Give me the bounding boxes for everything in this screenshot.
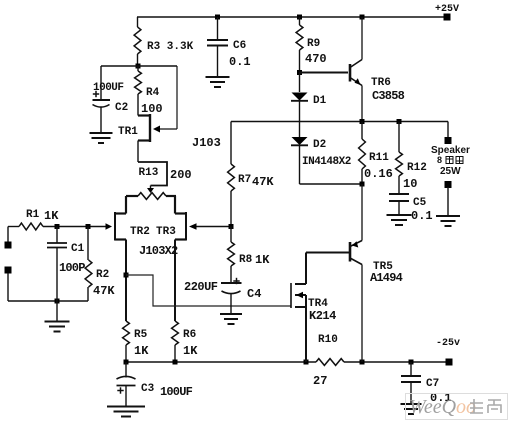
svg-text:R6: R6: [183, 329, 196, 341]
svg-text:R2: R2: [96, 269, 109, 281]
diode D1: [299, 73, 301, 93]
capacitor C4 220UF: [221, 282, 242, 284]
ground under C7: [401, 403, 422, 405]
resistor R8: [230, 227, 232, 243]
wire feedback to TR4 gate: [126, 275, 291, 306]
capacitor C1: [56, 227, 58, 244]
transistor TR2 J103 left: [125, 196, 127, 214]
label C4 plus: [233, 280, 239, 282]
wire TR2 source down: [125, 240, 127, 322]
svg-text:47K: 47K: [252, 175, 274, 189]
svg-text:R10: R10: [318, 334, 338, 346]
wire speaker to ground: [447, 187, 449, 216]
svg-text:27: 27: [313, 374, 327, 388]
node R2 top junction: [86, 224, 91, 229]
node ground junction: [55, 299, 60, 304]
node rail-TR6 junction: [360, 15, 365, 20]
svg-text:0.1: 0.1: [229, 55, 251, 69]
transistor TR3 J103 right: [174, 196, 176, 214]
terminal +25V: [444, 14, 451, 21]
node TR3 gate junction: [229, 224, 234, 229]
node rail TR5 junction: [360, 360, 365, 365]
ground under C6: [206, 76, 230, 78]
svg-text:C5: C5: [413, 197, 427, 209]
svg-text:200: 200: [170, 168, 192, 182]
svg-text:WeeQoo: WeeQoo: [409, 396, 476, 418]
ground under C3: [107, 406, 145, 408]
svg-text:10: 10: [403, 177, 417, 191]
svg-text:100UF: 100UF: [93, 82, 124, 94]
svg-text:100UF: 100UF: [160, 385, 193, 399]
resistor R1: [8, 226, 19, 228]
transistor TR1 J103: [138, 114, 150, 116]
svg-text:R13: R13: [139, 167, 159, 179]
ground under C2: [90, 132, 113, 134]
resistor R11: [361, 122, 363, 140]
svg-text:25W: 25W: [440, 166, 461, 177]
svg-text:TR1: TR1: [118, 126, 138, 138]
capacitor C5: [389, 193, 409, 195]
svg-text:R4: R4: [146, 87, 160, 99]
svg-text:100P: 100P: [59, 261, 85, 275]
resistor R9: [299, 17, 301, 25]
transistor TR4 K214 mosfet: [305, 253, 307, 285]
node R9 bottom junction: [297, 70, 302, 75]
svg-text:1K: 1K: [134, 344, 149, 358]
svg-text:J103: J103: [192, 136, 221, 150]
terminal speaker bottom: [445, 181, 452, 188]
svg-text:C6: C6: [233, 40, 246, 52]
capacitor C2: [100, 66, 102, 100]
node rail-R9 junction: [297, 15, 302, 20]
wire D1 to D2: [299, 101, 301, 137]
svg-text:220UF: 220UF: [184, 280, 218, 294]
wire D2 to R11 bottom node: [299, 145, 301, 184]
node R12 top junction: [397, 119, 402, 124]
svg-text:C3: C3: [141, 383, 155, 395]
label C2 plus: [93, 93, 99, 95]
wire input riser: [7, 227, 9, 243]
svg-text:R12: R12: [407, 162, 427, 174]
terminal input ground: [5, 267, 12, 274]
terminal input signal: [5, 242, 12, 249]
resistor R2: [87, 227, 89, 261]
svg-text:R7: R7: [238, 174, 251, 186]
resistor R12: [398, 122, 400, 153]
svg-text:R3 3.3K: R3 3.3K: [147, 41, 194, 53]
wire bottom rail: [126, 361, 316, 363]
svg-text:C3858: C3858: [372, 89, 405, 103]
wire TR3 gate: [196, 226, 231, 228]
wire input ground horizontal: [8, 300, 88, 302]
wire R1 to gate node: [43, 226, 88, 228]
svg-text:IN4148X2: IN4148X2: [302, 156, 351, 168]
capacitor C3: [125, 362, 127, 378]
terminal -25V: [446, 359, 453, 366]
capacitor C6: [217, 17, 219, 40]
svg-text:-25v: -25v: [436, 338, 460, 349]
ground under speaker: [436, 215, 460, 217]
svg-text:R5: R5: [134, 329, 148, 341]
svg-text:100: 100: [141, 102, 163, 116]
svg-text:D2: D2: [313, 139, 326, 151]
svg-text:TR6: TR6: [371, 77, 391, 89]
label C3 plus: [117, 390, 123, 392]
wire TR3 source down: [174, 240, 176, 322]
terminal speaker top: [445, 137, 452, 144]
svg-text:C4: C4: [247, 287, 261, 301]
node rail R6 junction: [173, 360, 178, 365]
node rail-C6 junction: [215, 15, 220, 20]
svg-text:K214: K214: [309, 309, 336, 323]
capacitor C7: [410, 362, 412, 376]
svg-text:C7: C7: [426, 378, 439, 390]
diode D2: [292, 137, 308, 145]
svg-text:1K: 1K: [255, 253, 270, 267]
node R11 bottom junction: [360, 182, 365, 187]
svg-text:1K: 1K: [183, 344, 198, 358]
wire top +25V rail: [137, 16, 447, 18]
node feedback tap junction: [124, 273, 129, 278]
transistor TR6 C3858: [349, 64, 352, 82]
node rail C7 junction: [409, 360, 414, 365]
svg-text:R9: R9: [307, 38, 320, 50]
wire node A horizontal: [101, 65, 177, 67]
svg-text:8: 8: [437, 155, 442, 165]
resistor R10: [316, 359, 344, 366]
wire TR2 gate: [88, 226, 106, 228]
svg-text:R1: R1: [26, 209, 40, 221]
svg-text:1K: 1K: [44, 209, 59, 223]
wire mid node line R7 to speaker: [231, 121, 448, 123]
node rail R5 junction: [124, 360, 129, 365]
wire TR6 base: [300, 72, 349, 74]
potentiometer R13 body: [138, 193, 166, 200]
resistor R6: [172, 321, 179, 345]
transistor TR5 A1494: [361, 184, 363, 241]
svg-text:+25V: +25V: [435, 4, 459, 15]
svg-text:47K: 47K: [93, 284, 115, 298]
watermark box: [406, 394, 508, 420]
svg-text:C2: C2: [115, 102, 128, 114]
svg-text:0.16: 0.16: [364, 167, 393, 181]
ground under C4: [220, 313, 242, 315]
wire input ground riser: [7, 273, 9, 301]
wire TR1 source to R13 wiper: [137, 141, 139, 163]
resistor R7: [230, 122, 232, 165]
svg-text:470: 470: [305, 52, 327, 66]
svg-text:A1494: A1494: [370, 271, 403, 285]
svg-text:R8: R8: [239, 254, 253, 266]
svg-text:R11: R11: [369, 152, 389, 164]
node TR6 emitter junction: [360, 119, 365, 124]
svg-text:TR3: TR3: [156, 226, 176, 238]
node C1 top junction: [55, 224, 60, 229]
resistor R4: [137, 66, 139, 71]
node rail TR4 junction: [304, 360, 309, 365]
svg-text:D1: D1: [313, 95, 327, 107]
node A junction R3/R4/C2/TR1-gate: [136, 64, 141, 69]
svg-text:J103X2: J103X2: [139, 244, 178, 258]
ground under C5: [387, 214, 412, 216]
svg-text:0.1: 0.1: [411, 209, 433, 223]
svg-text:C1: C1: [71, 243, 85, 255]
resistor R5: [123, 321, 130, 345]
watermark weiku glyphs: [470, 399, 501, 413]
ground input: [56, 301, 58, 322]
svg-text:TR2: TR2: [130, 226, 150, 238]
resistor R3: [137, 17, 139, 27]
